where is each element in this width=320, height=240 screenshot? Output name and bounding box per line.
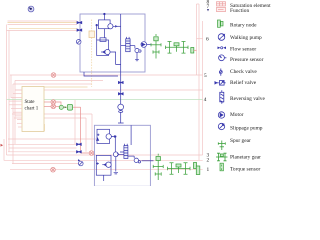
svg-text:Function: Function: [230, 8, 249, 14]
svg-text:Motor: Motor: [230, 112, 244, 118]
svg-text:Flow sensor: Flow sensor: [230, 47, 256, 53]
svg-text:Slippage pump: Slippage pump: [230, 126, 263, 132]
svg-text:Walking pump: Walking pump: [230, 35, 262, 41]
svg-text:Reversing valve: Reversing valve: [230, 96, 265, 102]
svg-text:Spur gear: Spur gear: [230, 138, 251, 144]
svg-text:Torque sensor: Torque sensor: [230, 167, 261, 173]
svg-text:chart 1: chart 1: [25, 107, 39, 112]
svg-text:2: 2: [207, 157, 210, 163]
svg-text:State: State: [25, 100, 36, 105]
svg-text:Rotary node: Rotary node: [230, 23, 257, 29]
svg-text:Relief valve: Relief valve: [230, 79, 257, 86]
svg-text:1: 1: [207, 167, 210, 173]
svg-text:6: 6: [206, 37, 209, 43]
svg-text:4: 4: [204, 97, 207, 103]
svg-text:5: 5: [204, 73, 207, 79]
svg-text:Planetary gear: Planetary gear: [230, 155, 261, 161]
svg-text:Check valve: Check valve: [230, 69, 257, 75]
svg-text:Pressure sensor: Pressure sensor: [230, 57, 264, 63]
